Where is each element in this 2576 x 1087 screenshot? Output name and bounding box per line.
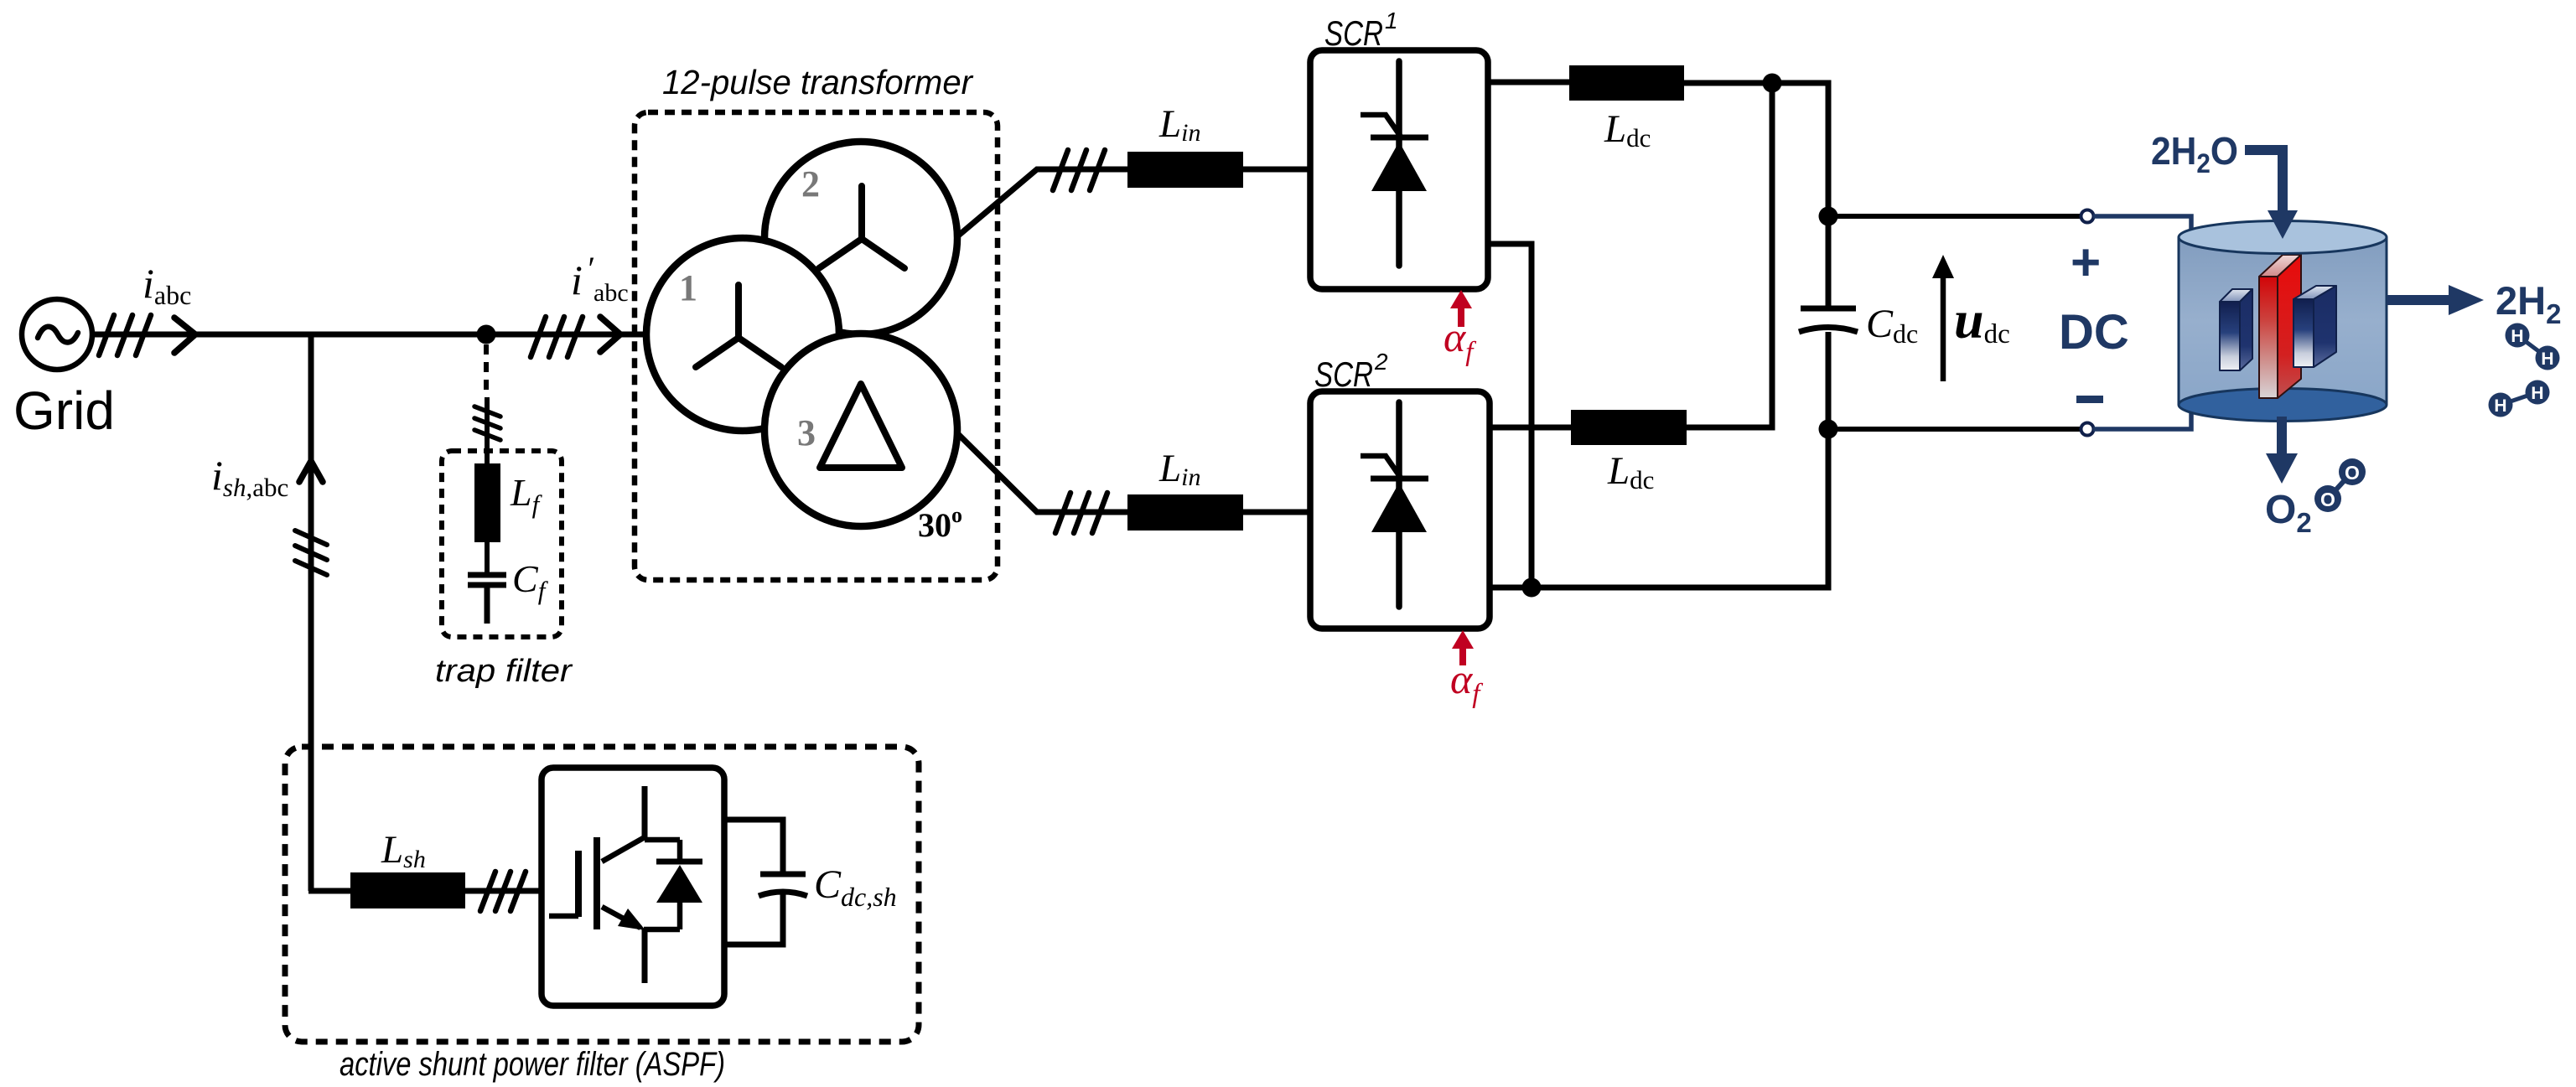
- capacitor C_f: [468, 575, 506, 624]
- trap filter dashed box: [442, 451, 562, 637]
- water inlet arrow 2H2O: [2245, 145, 2298, 239]
- electrolyzer top ellipse: [2179, 221, 2387, 254]
- wire: winding 3 to SCR2: [956, 432, 1310, 512]
- svg-text:Cdc: Cdc: [1866, 302, 1918, 349]
- transformer winding 3 (delta secondary): [765, 334, 957, 526]
- svg-text:3: 3: [797, 412, 816, 453]
- svg-text:O: O: [2345, 462, 2360, 484]
- three-phase ticks on L_sh wire: [480, 872, 526, 911]
- svg-text:12-pulse transformer: 12-pulse transformer: [662, 63, 974, 101]
- arrow on grid wire: [174, 318, 195, 353]
- firing angle arrow SCR2: [1452, 630, 1474, 665]
- svg-text:2: 2: [1374, 349, 1388, 375]
- svg-text:1: 1: [679, 267, 697, 308]
- electrolyzer cylinder body: [2179, 237, 2387, 405]
- inductor L_in (top): [1127, 152, 1243, 188]
- svg-text:Lin: Lin: [1158, 102, 1200, 147]
- svg-text:H: H: [2531, 384, 2543, 403]
- svg-text:αf: αf: [1450, 655, 1483, 709]
- wire: DC link vertical negative: [1490, 332, 1828, 587]
- wire: IGBT box to C_dc,sh bottom: [724, 893, 783, 945]
- svg-text:Ldc: Ldc: [1604, 107, 1651, 153]
- transformer winding 1 (wye primary): [646, 238, 839, 431]
- wire: SCR2 positive output: [1490, 425, 1571, 431]
- node: PCC junction: [477, 325, 496, 344]
- inductor L_dc (top): [1569, 65, 1684, 101]
- capacitor C_dc: [1799, 308, 1858, 332]
- svg-text:H: H: [2494, 396, 2506, 416]
- wire: winding 2 to SCR1: [956, 169, 1310, 237]
- wire: branch into L_sh: [308, 888, 350, 894]
- three-phase ticks on SCR1 feeder: [1053, 150, 1105, 190]
- svg-text:Grid: Grid: [13, 380, 115, 441]
- three-phase ticks on trap filter wire: [474, 406, 500, 440]
- IGBT emitter arrow: [618, 908, 645, 930]
- electrode plate right (anode): [2294, 286, 2336, 367]
- IGBT transistor Q1: [549, 786, 680, 983]
- svg-text:Lin: Lin: [1158, 447, 1200, 491]
- wire: SCR1 positive output: [1488, 80, 1569, 85]
- IGBT converter box: [542, 768, 724, 1006]
- svg-text:2H2O: 2H2O: [2151, 129, 2238, 179]
- svg-text:30o: 30o: [918, 503, 962, 544]
- wire: L_dc top to DC+ node: [1684, 83, 1828, 308]
- thyristor in SCR2: [1361, 402, 1428, 607]
- oxygen outlet arrow: [2266, 417, 2298, 484]
- hydrogen molecule 2: [2489, 380, 2550, 417]
- inductor L_in (bottom): [1127, 494, 1243, 531]
- arrow into transformer: [600, 317, 620, 352]
- svg-text:Lsh: Lsh: [381, 828, 426, 873]
- node: positive rail: [1819, 207, 1838, 226]
- svg-text:i: i: [571, 256, 583, 303]
- svg-text:active shunt power filter (ASP: active shunt power filter (ASPF): [339, 1046, 725, 1083]
- wire: SCR1 negative output: [1488, 244, 1532, 587]
- wire: negative rail to terminal: [1828, 427, 2081, 432]
- svg-text:2: 2: [801, 163, 820, 204]
- wire: negative terminal to electrolyzer (navy): [2093, 400, 2191, 429]
- three-phase ticks on shunt branch: [295, 531, 327, 575]
- arrow u_dc: [1932, 255, 1954, 381]
- svg-text:abc: abc: [593, 279, 629, 307]
- hydrogen outlet arrow: [2387, 285, 2484, 315]
- membrane plate center (red): [2259, 255, 2301, 398]
- label minus: [2076, 396, 2103, 403]
- svg-text:H: H: [2511, 327, 2523, 346]
- ASPF dashed box: [285, 747, 919, 1042]
- svg-text:+: +: [2071, 234, 2101, 292]
- three-phase ticks on grid wire: [99, 315, 151, 355]
- capacitor C_dc,sh: [759, 874, 807, 896]
- 12-pulse transformer dashed box: [635, 112, 998, 580]
- antiparallel diode D1: [656, 840, 702, 929]
- inductor L_f: [474, 463, 500, 542]
- three-phase ticks on SCR2 feeder: [1055, 493, 1107, 533]
- wire: grid to transformer winding 1: [92, 332, 647, 338]
- svg-text:trap filter: trap filter: [435, 654, 573, 689]
- terminal circle negative: [2081, 423, 2094, 436]
- electrolyzer cylinder outline: [2179, 237, 2387, 405]
- svg-text:Cf: Cf: [512, 557, 549, 605]
- arrow i_sh upward: [299, 461, 323, 482]
- thyristor in SCR1: [1361, 61, 1428, 266]
- svg-text:H: H: [2541, 349, 2553, 369]
- wire: L_sh to IGBT box: [465, 888, 542, 894]
- svg-text:Lf: Lf: [510, 471, 543, 519]
- inductor L_sh: [350, 872, 465, 908]
- svg-text:DC: DC: [2059, 305, 2129, 360]
- wire: positive terminal to electrolyzer (navy): [2093, 216, 2191, 243]
- svg-text:ish,abc: ish,abc: [211, 452, 288, 502]
- svg-text:udc: udc: [1954, 290, 2010, 349]
- dashed tap wire to trap filter: [484, 344, 489, 397]
- node: negative rail: [1819, 420, 1838, 439]
- firing angle arrow SCR1: [1450, 290, 1472, 327]
- wire: IGBT box to C_dc,sh top: [724, 820, 783, 872]
- svg-text:2H2: 2H2: [2496, 278, 2561, 329]
- svg-text:Cdc,sh: Cdc,sh: [814, 862, 897, 912]
- svg-text:αf: αf: [1443, 313, 1476, 367]
- AC source Grid: [22, 299, 92, 370]
- electrode plate left (cathode): [2220, 289, 2252, 370]
- SCR1 box: [1310, 50, 1488, 289]
- terminal circle positive: [2081, 210, 2094, 223]
- svg-text:Ldc: Ldc: [1607, 449, 1654, 494]
- wire: shunt branch vertical: [308, 334, 314, 891]
- svg-text:iabc: iabc: [143, 260, 191, 310]
- oxygen molecule: [2314, 458, 2366, 512]
- node: negative rail junction: [1522, 578, 1542, 598]
- wire: positive rail to terminal: [1828, 214, 2081, 219]
- electrolyzer bottom ellipse: [2179, 389, 2387, 422]
- transformer winding 2 (wye secondary): [765, 142, 957, 334]
- SCR2 box: [1310, 391, 1490, 629]
- svg-text:1: 1: [1385, 8, 1398, 34]
- node: DC+ inductor junction: [1763, 74, 1782, 93]
- hydrogen molecule 1: [2506, 324, 2560, 370]
- svg-text:SCR: SCR: [1314, 355, 1373, 394]
- wire into trap filter: [485, 397, 490, 466]
- svg-text:SCR: SCR: [1324, 13, 1383, 53]
- svg-text:O: O: [2320, 489, 2335, 510]
- inductor L_dc (bottom): [1571, 410, 1687, 445]
- three-phase ticks before transformer: [531, 317, 583, 357]
- wire: L_f to C_f: [485, 542, 490, 572]
- wire: L_dc bottom up to DC+ node: [1687, 83, 1772, 427]
- svg-text:O2: O2: [2265, 488, 2312, 538]
